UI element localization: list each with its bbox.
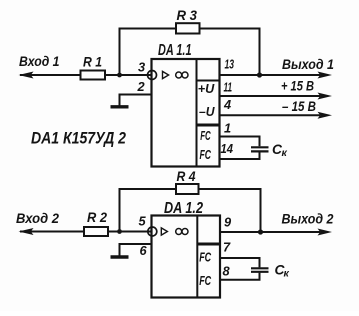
- wire: pin 1 to capacitor: [220, 137, 260, 147]
- infinity gain symbol DA1.2: [176, 229, 182, 235]
- svg-text:2: 2: [137, 79, 145, 94]
- wire: pin 7 to capacitor: [220, 258, 260, 267]
- svg-text:4: 4: [223, 97, 231, 112]
- resistor R3: [176, 23, 200, 33]
- svg-text:3: 3: [138, 60, 145, 75]
- wire: pin 9 output 2: [220, 231, 320, 233]
- svg-text:DA 1.1: DA 1.1: [158, 42, 192, 59]
- svg-text:R 3: R 3: [177, 8, 198, 23]
- capacitor Ck1 bottom plate: [251, 150, 269, 152]
- svg-text:к: к: [284, 268, 290, 280]
- svg-text:7: 7: [223, 240, 231, 255]
- op-amp DA1.1 thick cell line above FC cells: [197, 124, 220, 127]
- svg-text:к: к: [282, 147, 288, 159]
- ground 1: [111, 105, 129, 108]
- wire: feedback 1 top horizontal right of R3: [200, 28, 260, 30]
- arrow: output 1: [318, 72, 333, 79]
- capacitor Ck2 top plate: [251, 267, 269, 269]
- resistor R1: [81, 71, 106, 80]
- amplifier triangle symbol DA1.1: [163, 71, 169, 78]
- wire: R1 to pin 3: [105, 74, 152, 76]
- wire: R2 to pin 5: [108, 231, 152, 233]
- svg-text:FC: FC: [199, 249, 211, 264]
- wire: pin 13 output 1: [220, 74, 321, 76]
- wire: feedback 1 vertical up: [119, 29, 121, 76]
- svg-text:8: 8: [223, 264, 231, 279]
- arrow: +15V: [318, 93, 333, 100]
- wire: feedback 1 vertical down to output: [259, 28, 261, 76]
- op-amp DA1.2 inner divider: [196, 216, 198, 298]
- svg-text:Выход 2: Выход 2: [282, 211, 334, 226]
- wire: input 2 horizontal: [20, 231, 84, 233]
- op-amp DA1.2 thick cell line under output cell: [197, 243, 220, 246]
- svg-text:– 15 В: – 15 В: [282, 99, 316, 114]
- svg-text:DA 1.2: DA 1.2: [164, 200, 203, 217]
- svg-text:14: 14: [221, 141, 234, 156]
- wire: feedback 2 horizontal left of R4: [119, 188, 177, 190]
- capacitor Ck2 bottom plate: [251, 271, 269, 273]
- svg-text:FC: FC: [200, 147, 212, 162]
- wire: pin 8 to capacitor: [220, 273, 260, 280]
- svg-text:+U: +U: [198, 81, 215, 96]
- svg-text:6: 6: [140, 243, 148, 258]
- node: feedback tap 1: [117, 73, 122, 78]
- resistor R2: [84, 227, 108, 236]
- svg-text:R 4: R 4: [177, 169, 196, 184]
- arrow: input 1 left arrowhead: [19, 72, 34, 79]
- node: feedback tap 2: [117, 229, 122, 234]
- svg-text:FC: FC: [199, 273, 211, 288]
- wire: feedback 2 horizontal right of R4: [199, 188, 261, 190]
- wire: feedback 2 vertical down to output: [260, 188, 262, 232]
- svg-text:R 1: R 1: [83, 54, 102, 69]
- wire: input 1 horizontal: [20, 74, 81, 76]
- svg-text:1: 1: [224, 120, 231, 135]
- svg-text:Вход 1: Вход 1: [19, 54, 60, 69]
- op-amp DA1.2 box: [152, 216, 221, 298]
- wire: feedback 2 vertical up: [119, 189, 121, 232]
- inverting input circle pin 5: [148, 227, 157, 236]
- svg-text:+ 15 В: + 15 В: [281, 78, 314, 93]
- op-amp DA1.1 box: [152, 59, 220, 167]
- wire: pin 6: [120, 244, 152, 256]
- svg-text:R 2: R 2: [87, 210, 107, 225]
- op-amp DA1.1 cell line under output cell: [197, 80, 220, 82]
- svg-text:13: 13: [225, 56, 235, 71]
- wire: pin 14 to capacitor: [220, 152, 260, 159]
- wire: pin 2: [120, 95, 152, 106]
- svg-text:Выход 1: Выход 1: [282, 57, 334, 72]
- svg-text:11: 11: [224, 80, 233, 95]
- inverting input circle pin 3: [148, 71, 157, 80]
- amplifier triangle symbol DA1.2: [161, 228, 167, 235]
- infinity gain symbol DA1.1: [176, 72, 182, 78]
- wire: pin 4 -15V: [220, 114, 321, 116]
- arrow: output 2: [318, 229, 333, 236]
- svg-text:–U: –U: [199, 104, 215, 119]
- svg-text:Вход 2: Вход 2: [16, 211, 59, 226]
- op-amp DA1.1 inner divider: [196, 59, 198, 167]
- wire: feedback 1 top horizontal left of R3: [119, 28, 177, 30]
- node: output junction 2: [258, 229, 263, 234]
- resistor R4: [176, 184, 199, 194]
- arrow: -15V: [318, 112, 333, 119]
- capacitor Ck1 top plate: [251, 146, 269, 148]
- svg-text:5: 5: [139, 213, 147, 228]
- wire: pin 11 +15V: [220, 95, 321, 97]
- arrow: input 2 left arrowhead: [19, 228, 34, 235]
- svg-text:9: 9: [224, 214, 232, 229]
- ground 2: [111, 255, 129, 258]
- svg-text:DA1 К157УД 2: DA1 К157УД 2: [31, 129, 126, 147]
- node: output junction 1: [257, 72, 262, 77]
- svg-text:FC: FC: [200, 128, 211, 143]
